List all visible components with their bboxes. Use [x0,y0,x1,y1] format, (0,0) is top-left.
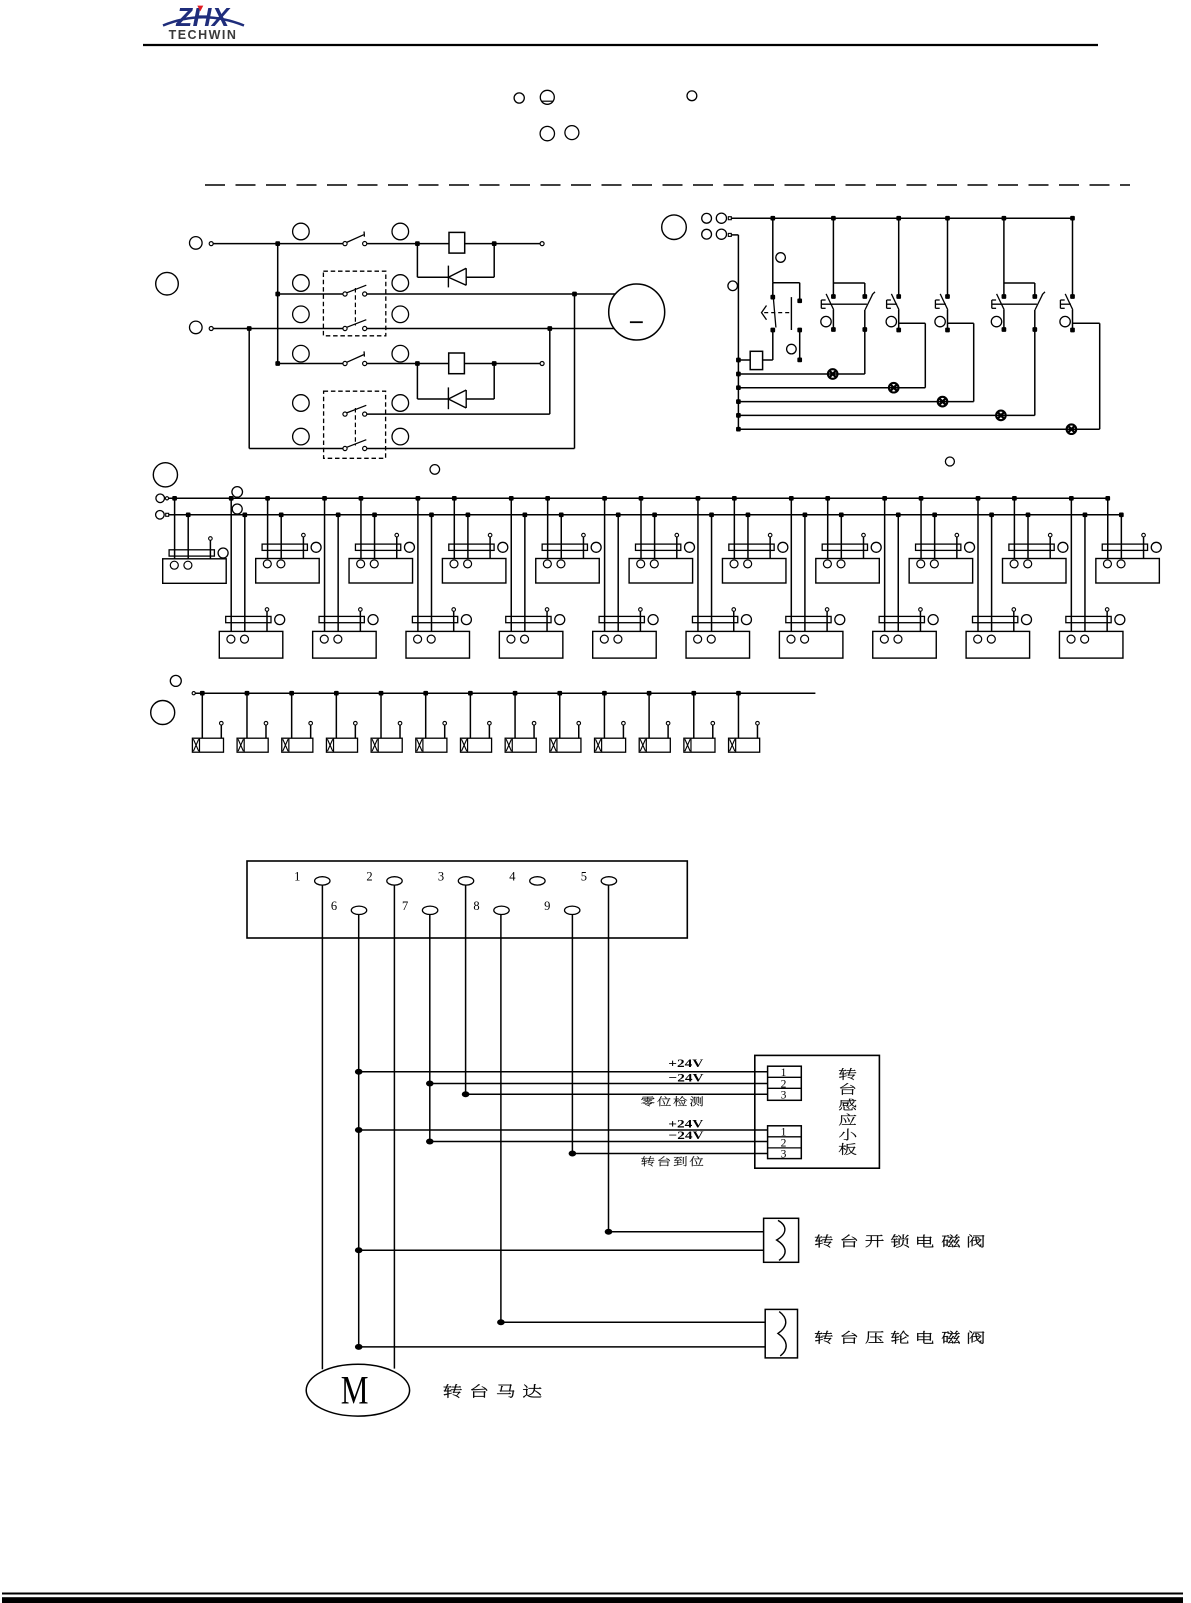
wire branch1 right drop [799,283,801,301]
wire estop right down [799,330,801,360]
wire branch1 feed [772,218,774,283]
terminal [165,497,168,500]
wire row4c [464,363,540,365]
connector module T4 [452,496,457,501]
junction [1002,216,1007,221]
solenoid valve YV10 [602,691,607,696]
estop arrow [762,306,767,320]
limit switch SQ4 pair [1003,218,1005,283]
limit switch SQ3 [945,294,950,299]
wire 7 vertical [429,915,431,1142]
svg-text:−24V: −24V [669,1128,704,1142]
circle node below [945,457,954,466]
circle node [232,487,243,498]
circle node [156,511,165,520]
label in-position [641,1156,654,1166]
connector module T10 [1012,496,1017,501]
terminal pin 7 [422,906,437,914]
wire indicator row 5 [738,428,1099,430]
label zero-detect [641,1096,654,1106]
connector module T6 [639,496,644,501]
terminal pin 2 [387,877,402,885]
diode D1 [448,266,466,288]
wire 3 vertical [465,885,467,1094]
connector module B6 [696,496,701,501]
junction [945,216,950,221]
wire branch4 feed [947,218,949,296]
junction [736,427,741,432]
wire 6 vertical [358,915,360,1347]
junction [572,292,577,297]
wire row2 [278,293,343,295]
terminal row1 [209,242,213,246]
junction [247,326,252,331]
junction [415,361,420,366]
wire zero-detect [466,1093,768,1095]
label sensor board [839,1068,856,1080]
wire 2 vertical [393,885,395,1369]
svg-text:3: 3 [781,1149,787,1161]
circle node [156,494,165,503]
junction [492,361,497,366]
wire to valve1 bottom [359,1249,764,1251]
switch S4 [343,361,347,365]
connector module T9 [919,496,924,501]
solenoid valve YV12 [691,691,696,696]
solenoid valve YV7 [468,691,473,696]
wire diode loop left [416,244,418,278]
wire row1b [367,243,449,245]
node circle [540,126,554,140]
pin header J2 [768,1126,802,1159]
wire -24V b [430,1141,768,1143]
wire branch3 feed [898,218,900,296]
wire diode2 h1 [417,398,448,400]
solenoid valve YV2 [245,691,250,696]
terminal pin 1 [315,877,330,885]
dashed box K2 contacts [323,271,385,336]
wire to valve2 top [501,1321,765,1323]
wire row2b [367,293,616,295]
bus vertical B [248,329,250,449]
wire branch1 bar [773,282,800,284]
circle node [776,253,786,263]
solenoid valve V-press [765,1309,797,1358]
solenoid valve YV8 [513,691,518,696]
connector module B9 [976,496,981,501]
connector module B10 [1069,496,1074,501]
footer thin rule [2,1593,1183,1595]
wire to left bus [731,234,738,236]
lamp HL2 [889,383,899,393]
connector module B1 [229,496,234,501]
big circle node left [156,272,179,295]
wire to valve1 top [609,1231,764,1233]
diode D2 [448,387,466,409]
solenoid valve YV11 [647,691,652,696]
circle node [702,229,712,239]
wire -24V a [430,1083,768,1085]
junction [896,216,901,221]
lamp HL1 [828,369,838,379]
connector module T8 [825,496,830,501]
terminal square 2 [728,233,731,236]
mid bus 1 [169,497,1108,499]
wire row6b [367,448,575,450]
junction [831,216,836,221]
junction [1070,216,1075,221]
pin header J1 [768,1066,802,1100]
sensor board box [755,1055,880,1168]
circle node [151,701,175,725]
connector module B4 [509,496,514,501]
svg-text:8: 8 [473,899,479,913]
wire branch6 feed [1072,218,1074,296]
small circle node [430,465,440,475]
node circle [540,90,554,104]
junction [736,358,741,363]
wire row4b [367,363,449,365]
circle node pair [293,306,310,323]
switch S2 (in box) [343,292,347,296]
svg-text:+24V: +24V [668,1056,703,1070]
terminal block box [247,861,687,938]
estop operator bar [790,297,792,330]
svg-text:2: 2 [366,870,372,884]
wire row5 up [549,329,551,415]
terminal pin 6 [351,906,366,914]
motor M2 [306,1364,409,1416]
junction [736,413,741,418]
circle node pair [293,395,310,412]
lamp HL5 [1067,424,1077,434]
terminal square 1 [728,217,731,220]
wire estop left down [772,330,774,360]
bus vertical A [277,244,279,364]
wire indicator row 4 [738,414,1034,416]
header rule [143,44,1098,46]
wire row3b [367,328,614,330]
junction [736,385,741,390]
big circle node bottom-left [153,463,177,487]
circle node pair [293,345,310,362]
connector module T3 [359,496,364,501]
svg-text:−24V: −24V [669,1071,704,1085]
connector module B7 [789,496,794,501]
gang link dashed [354,288,356,326]
limit switch SQ5 [1070,294,1075,299]
svg-text:7: 7 [402,899,408,913]
relay coil K1 [449,232,465,253]
dashed box K3 contacts [324,391,386,458]
svg-text:1: 1 [294,870,300,884]
footer bar [2,1597,1183,1603]
circle node [728,281,738,291]
connector module T7 [732,496,737,501]
circle node [702,213,712,223]
wire to valve2 bottom [359,1346,766,1348]
svg-text:4: 4 [509,870,516,884]
limit switch SQ1 pair [832,218,834,283]
svg-text:9: 9 [544,899,550,913]
wire row1c [465,243,540,245]
wire row6a [249,448,343,450]
wire 5 vertical [608,885,610,1232]
svg-text:6: 6 [331,899,337,913]
connector module B5 [602,496,607,501]
junction [275,292,280,297]
connector module T5 [545,496,550,501]
node circle [565,126,579,140]
wire row4 [278,363,343,365]
connector module B2 [322,496,327,501]
wire indicator row 2 [738,387,925,389]
gang link dashed 2 [354,408,356,446]
motor M1 [609,284,665,340]
node circle [514,93,524,103]
svg-text:M: M [341,1368,369,1413]
junction [275,361,280,366]
switch S5 (in box) [343,412,347,416]
terminal row3 [209,327,213,331]
junction [547,326,552,331]
wire 9 vertical [571,915,573,1154]
wire row6 up [574,294,576,449]
switch S1 [343,242,347,246]
wire row3 [213,328,343,330]
circle node [170,675,181,686]
terminal square [166,513,169,516]
terminal pin 5 [601,877,616,885]
label motor [444,1384,462,1398]
wire branch1 left drop [772,283,774,297]
dashed separator [205,184,1130,186]
circle node [716,213,726,223]
junction [415,241,420,246]
terminal pin 4 [530,877,545,885]
estop NC contact [770,295,775,300]
mid bus 2 [169,514,1122,516]
wire diode loop right [493,244,495,278]
wire relay right [763,359,773,361]
label unlock valve [815,1234,833,1247]
wire diode loop h1 [417,276,448,278]
switch S6 (in box) [343,446,347,450]
svg-text:3: 3 [781,1090,787,1102]
circle node pair [293,223,310,240]
solenoid valve YV5 [379,691,384,696]
big circle node right [662,215,687,240]
svg-text:2: 2 [781,1078,787,1090]
circle node row3 left [190,321,203,334]
node circle [687,91,697,101]
solenoid valve YV6 [423,691,428,696]
wire in-position [572,1153,767,1155]
wire diode loop h2 [466,276,494,278]
svg-text:TECHWIN: TECHWIN [169,28,238,42]
wire relay left [738,359,750,361]
circle node pair [293,428,310,445]
wire diode2 left [416,364,418,400]
junction [736,372,741,377]
terminal pin 3 [458,877,473,885]
top bus [731,217,1072,219]
circle node [787,344,797,354]
terminal pin 9 [565,906,580,914]
junction [275,241,280,246]
solenoid valve YV1 [200,691,205,696]
wire diode2 right [493,364,495,400]
wire 1 vertical [321,885,323,1369]
circle node [716,229,726,239]
wire row1 [213,243,343,245]
junction [770,216,775,221]
svg-text:5: 5 [581,870,587,884]
estop dashed link [764,312,791,314]
wire +24V a [359,1071,768,1073]
label press valve [815,1331,833,1344]
wire +24V b [359,1129,768,1131]
solenoid valve YV13 [736,691,741,696]
wire 8 vertical [500,915,502,1323]
switch S3 (in box) [343,326,347,330]
connector module T11 [1105,496,1110,501]
connector module B8 [882,496,887,501]
limit switch SQ2 [896,294,901,299]
lamp HL3 [938,397,948,407]
relay coil K2 [449,353,465,374]
terminal row1 right [540,242,544,246]
wire indicator row 3 [738,401,973,403]
solenoid valve YV9 [557,691,562,696]
terminal [192,692,195,695]
wire indicator row 1 [738,373,864,375]
junction [736,399,741,404]
solenoid valve YV3 [289,691,294,696]
svg-text:3: 3 [438,870,444,884]
relay coil KR [750,351,762,369]
circle node row1 left [190,237,203,250]
solenoid valve YV4 [334,691,339,696]
left bus vertical [737,235,739,429]
connector module T1 [172,496,177,501]
junction [492,241,497,246]
solenoid valve V-unlock [764,1218,799,1262]
connector module T2 [265,496,270,501]
connector module B3 [416,496,421,501]
logo ZHX TECHWIN [163,2,244,42]
estop NO contact [797,298,802,303]
wire row5 [367,413,550,415]
circle node [232,504,242,514]
lamp HL4 [996,411,1006,421]
terminal row4 right [540,362,544,366]
terminal pin 8 [494,906,509,914]
circle node pair [293,275,310,292]
valve bus [195,692,815,694]
wire diode2 h2 [466,398,494,400]
